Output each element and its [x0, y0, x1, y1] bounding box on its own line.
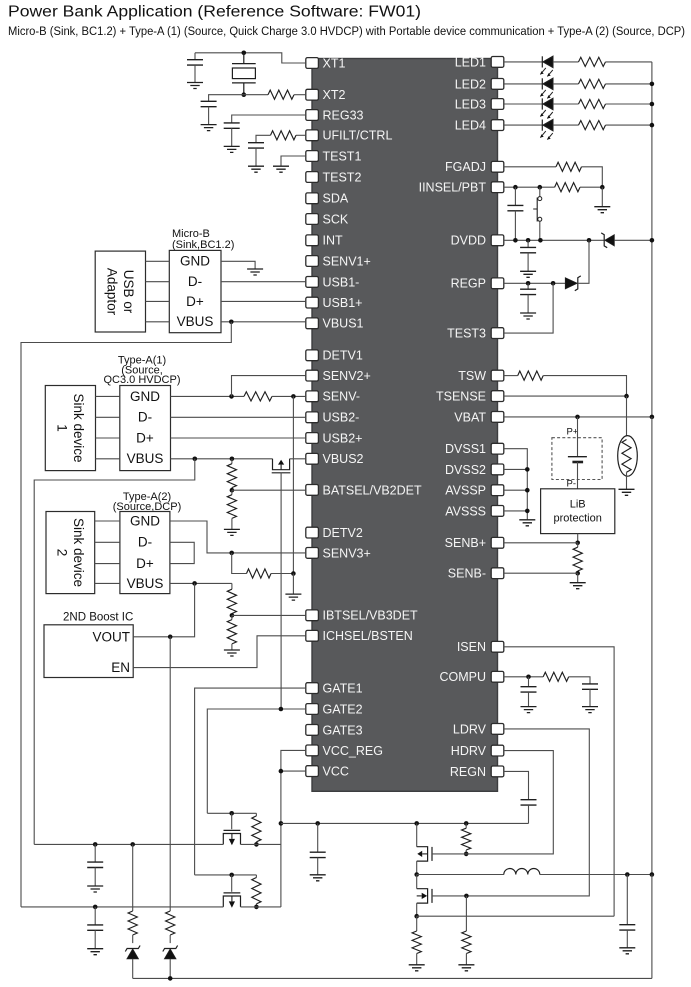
- pin USB1+: [306, 297, 319, 308]
- node Q3 gate: [229, 873, 234, 878]
- wire: [231, 614, 233, 616]
- node TSENSE/thermistor: [624, 394, 629, 399]
- svg-text:VBAT: VBAT: [454, 410, 486, 424]
- resistor (zener series 2): [166, 911, 175, 935]
- wire ISEN return: [417, 915, 614, 917]
- pin HDRV: [491, 745, 504, 756]
- wire SENV- net: [171, 395, 245, 397]
- svg-text:REGP: REGP: [451, 277, 486, 291]
- pin LED1: [491, 57, 504, 68]
- wire DVDD net: [504, 239, 604, 241]
- ground: [187, 83, 203, 89]
- node REGP/TEST3 join: [551, 281, 556, 286]
- wire: [231, 128, 233, 146]
- node REGP cap tap: [526, 281, 531, 286]
- wire: [255, 813, 257, 816]
- pin TSENSE: [491, 391, 504, 402]
- svg-text:LED4: LED4: [455, 119, 486, 133]
- Sink device 2 box: [46, 512, 95, 594]
- wire: [256, 135, 271, 142]
- wire SENB- net: [504, 572, 578, 574]
- wire D- to USB1-: [221, 281, 306, 283]
- USB or Adaptor box: [95, 251, 145, 332]
- wire: [416, 875, 418, 889]
- wire: [255, 842, 257, 845]
- node VBAT/rail: [650, 415, 655, 420]
- svg-text:SENV3+: SENV3+: [323, 546, 371, 560]
- pin SENV-: [306, 391, 319, 402]
- svg-text:UFILT/CTRL: UFILT/CTRL: [323, 129, 393, 143]
- svg-text:P-: P-: [567, 479, 577, 490]
- wire: [96, 437, 120, 439]
- svg-text:SENV-: SENV-: [323, 390, 361, 404]
- resistor (LED3 limit): [579, 99, 606, 108]
- wire: [514, 211, 516, 241]
- svg-text:FGADJ: FGADJ: [445, 160, 486, 174]
- Type-A(2) connector box: [120, 512, 170, 594]
- ground: [458, 965, 474, 971]
- wire: [539, 187, 541, 196]
- wire to IBTSEL/VB3DET: [232, 614, 306, 616]
- pin REG33: [306, 110, 319, 121]
- pin GATE1: [306, 683, 319, 694]
- pin SENB-: [491, 568, 504, 579]
- wire VBUS (Type-A2) net: [170, 582, 232, 584]
- svg-text:protection: protection: [554, 513, 602, 525]
- node Q5 gate/pulldown: [464, 894, 469, 899]
- ground: [520, 313, 536, 319]
- wire: [95, 541, 120, 543]
- wire: [416, 903, 418, 916]
- capacitor (REGN): [521, 800, 537, 805]
- svg-text:GND: GND: [130, 389, 160, 404]
- pin REGP: [491, 278, 504, 289]
- resistor (current sense): [412, 931, 421, 954]
- node GATE2 / Q1 gate: [279, 707, 284, 712]
- svg-text:TEST3: TEST3: [447, 327, 486, 341]
- node Q4 gate/resistor: [464, 852, 469, 857]
- wire: [416, 861, 418, 874]
- transistor Q2 (load switch): [223, 830, 240, 844]
- node VCC cap tap: [315, 821, 320, 826]
- svg-text:EN: EN: [111, 660, 130, 675]
- wire: [96, 458, 120, 460]
- wire AVSSS net: [504, 510, 528, 512]
- wire micro-B GND: [221, 261, 255, 269]
- wire REGP net: [504, 282, 566, 284]
- pin DETV1: [306, 350, 319, 361]
- wire: [209, 95, 244, 102]
- svg-text:TSENSE: TSENSE: [436, 390, 486, 404]
- wire: [231, 813, 233, 829]
- node DVDD/IINSEL cap: [513, 238, 518, 243]
- node sense resistor top: [414, 914, 419, 919]
- pin FGADJ: [491, 161, 504, 172]
- Micro-B connector box: [169, 250, 221, 332]
- node VBAT/battery: [575, 415, 580, 420]
- wire: [231, 490, 233, 495]
- node DVDD cap tap: [526, 238, 531, 243]
- wire: [465, 850, 467, 854]
- node bottom rail join: [168, 976, 173, 981]
- pin ICHSEL/BSTEN: [306, 630, 319, 641]
- svg-text:VCC: VCC: [323, 765, 349, 779]
- node SENB+: [575, 541, 580, 546]
- svg-text:VBUS2: VBUS2: [323, 452, 364, 466]
- svg-text:USB1-: USB1-: [323, 275, 360, 289]
- svg-text:SCK: SCK: [323, 212, 349, 226]
- resistor (LED4 limit): [579, 121, 606, 130]
- pin GATE3: [306, 725, 319, 736]
- svg-text:GATE1: GATE1: [323, 682, 363, 696]
- wire: [580, 186, 602, 188]
- wire: [94, 844, 96, 862]
- wire: [95, 582, 120, 584]
- pin SDA: [306, 193, 319, 204]
- ground: [594, 207, 610, 213]
- node IINSEL cap tap: [513, 185, 518, 190]
- node DVDD switch join: [538, 238, 543, 243]
- wire zener to DVDD: [578, 240, 589, 283]
- ground: [248, 166, 264, 172]
- svg-text:D+: D+: [136, 430, 154, 445]
- svg-text:Power Bank Application (Refere: Power Bank Application (Reference Softwa…: [8, 4, 421, 21]
- pin SENB+: [491, 537, 504, 548]
- wire: [553, 124, 579, 126]
- battery BT1: [568, 456, 587, 458]
- svg-text:INT: INT: [323, 234, 344, 248]
- wire: [272, 395, 306, 397]
- wire Q3 source line: [241, 906, 281, 908]
- wire: [614, 239, 652, 241]
- wire: [255, 148, 257, 166]
- svg-text:SENV2+: SENV2+: [323, 369, 371, 383]
- wire: [514, 187, 516, 205]
- pin VBUS1: [306, 318, 319, 329]
- svg-text:DVDD: DVDD: [451, 234, 486, 248]
- wire: [231, 459, 233, 464]
- wire: [543, 376, 626, 397]
- wire XT1 net: [195, 53, 306, 63]
- node XT2 junction: [242, 92, 247, 97]
- wire ISEN net: [504, 647, 614, 916]
- svg-text:LiB: LiB: [570, 499, 586, 511]
- capacitor (DVDD): [520, 247, 536, 252]
- resistor R_a (VBUS divider upper): [227, 464, 236, 488]
- wire: [601, 187, 603, 207]
- pin IBTSEL/VB3DET: [306, 610, 319, 621]
- pin LED3: [491, 99, 504, 110]
- capacitor (IINSEL filter): [507, 205, 523, 210]
- wire: [255, 904, 257, 907]
- wire VOUT to VBUS: [133, 583, 194, 636]
- svg-text:(Sink,BC1.2): (Sink,BC1.2): [172, 239, 234, 251]
- wire: [416, 916, 418, 931]
- capacitor C4 (UFILT): [248, 143, 264, 148]
- pin VCC: [306, 766, 319, 777]
- svg-text:USB or: USB or: [121, 270, 136, 314]
- pin DETV2: [306, 527, 319, 538]
- node XT1 junction: [242, 51, 247, 56]
- pin LED2: [491, 79, 504, 90]
- pin DVSS1: [491, 443, 504, 454]
- node drain cap tap: [93, 842, 98, 847]
- svg-text:USB2+: USB2+: [323, 431, 363, 445]
- battery pack dashed box: [552, 438, 602, 480]
- ground: [310, 875, 326, 881]
- wire TSENSE net: [504, 395, 627, 397]
- ground: [247, 269, 263, 275]
- inductor L1: [504, 869, 540, 875]
- wire: [465, 954, 467, 965]
- pin ISEN: [491, 641, 504, 652]
- wire: [255, 875, 257, 878]
- ground: [273, 166, 289, 172]
- svg-text:SENV1+: SENV1+: [323, 254, 371, 268]
- wire: [569, 677, 590, 684]
- wire: [606, 61, 652, 63]
- wire LED1 cathode: [504, 61, 543, 63]
- ground: [619, 948, 635, 954]
- ground: [87, 949, 103, 955]
- wire: [169, 935, 171, 943]
- wire D- to USB2-: [171, 416, 306, 418]
- svg-text:D-: D-: [138, 410, 152, 425]
- wire REG33 net: [232, 115, 306, 123]
- wire XT2 net: [244, 94, 268, 96]
- wire LED4 cathode: [504, 124, 543, 126]
- wire AVSSP net: [504, 489, 528, 491]
- resistor (inside thermistor): [622, 440, 631, 473]
- wire Q2 source line: [241, 843, 281, 845]
- svg-text:SDA: SDA: [323, 192, 349, 206]
- LiB protection box: [541, 489, 615, 534]
- wire: [626, 472, 628, 489]
- node switch node left: [414, 872, 419, 877]
- node SENV3+ tap: [229, 551, 234, 556]
- pin DVDD: [491, 235, 504, 246]
- resistor (LED1 limit): [579, 57, 606, 66]
- svg-text:LED1: LED1: [455, 55, 486, 69]
- wire: [96, 395, 120, 397]
- wire: [231, 518, 233, 529]
- wire: [606, 83, 652, 85]
- wire: [553, 61, 579, 63]
- wire switch node: [417, 874, 504, 876]
- wire: [95, 563, 120, 565]
- wire VBAT net: [504, 416, 652, 418]
- pin COMPU: [491, 671, 504, 682]
- wire: [231, 615, 233, 619]
- wire LED2 cathode: [504, 83, 543, 85]
- Sink device 1 box: [45, 386, 95, 471]
- transistor Q4 (high-side PMOS): [417, 847, 432, 861]
- svg-text:DETV1: DETV1: [323, 349, 363, 363]
- wire: [146, 260, 170, 262]
- svg-text:2ND Boost IC: 2ND Boost IC: [63, 612, 133, 624]
- resistor (UFILT series): [271, 131, 297, 140]
- wire: [146, 300, 170, 302]
- capacitor C1 (XT1 load): [187, 60, 203, 65]
- wire: [589, 689, 591, 706]
- wire: [317, 823, 319, 852]
- resistor (SENV- series): [244, 392, 272, 401]
- thermistor RT1: [618, 436, 638, 477]
- node SENB-: [575, 571, 580, 576]
- node VCC input cap tap: [93, 905, 98, 910]
- pin TEST1: [306, 151, 319, 162]
- wire: [577, 543, 579, 547]
- svg-text:IBTSEL/VB3DET: IBTSEL/VB3DET: [323, 609, 419, 623]
- capacitor (COMPU 1): [521, 687, 537, 692]
- node VBUS/VOUT join: [192, 581, 197, 586]
- pin UFILT/CTRL: [306, 130, 319, 141]
- pin VBAT: [491, 412, 504, 423]
- svg-text:BATSEL/VB2DET: BATSEL/VB2DET: [323, 483, 422, 497]
- capacitor (output): [619, 925, 635, 930]
- node LED3 rail: [650, 102, 655, 107]
- pin IINSEL/PBT: [491, 182, 504, 193]
- crystal X1: [232, 53, 256, 95]
- wire: [194, 65, 196, 82]
- pin TEST2: [306, 172, 319, 183]
- ground: [285, 594, 301, 600]
- wire: [231, 875, 233, 892]
- wire: [528, 677, 530, 687]
- wire: [465, 896, 467, 931]
- ground: [520, 271, 536, 277]
- svg-text:SENB-: SENB-: [448, 567, 486, 581]
- svg-text:GATE3: GATE3: [323, 723, 363, 737]
- wire: [626, 930, 628, 948]
- node PMOS drain: [414, 821, 419, 826]
- resistor (VB3 divider upper): [227, 589, 236, 613]
- capacitor (VCC input): [87, 925, 103, 930]
- wire: [95, 520, 120, 522]
- wire: [208, 107, 210, 125]
- node zener branch 1: [130, 842, 135, 847]
- wire right rail to bottom: [651, 875, 653, 979]
- wire: [294, 94, 306, 96]
- transistor Q5 (low-side NMOS): [417, 889, 432, 903]
- wire D-/D+ short (DCP): [170, 542, 194, 563]
- wire: [231, 488, 233, 491]
- ground: [224, 650, 240, 656]
- node DVDD zener join: [587, 238, 592, 243]
- node VBUS branch: [193, 457, 198, 462]
- svg-text:GND: GND: [130, 513, 160, 528]
- svg-text:DETV2: DETV2: [323, 526, 363, 540]
- node COMPU cap tap: [526, 675, 531, 680]
- wire LED anode rail: [651, 62, 653, 417]
- resistor (TSW): [518, 371, 544, 380]
- wire D+ to USB2+: [171, 437, 306, 439]
- pin VCC_REG: [306, 745, 319, 756]
- gate plate of Q1: [272, 472, 291, 474]
- node SENV2+ tap: [229, 394, 234, 399]
- Type-A(1) connector box: [120, 386, 171, 471]
- wire: [465, 823, 467, 828]
- wire: [94, 868, 96, 887]
- ground: [519, 520, 535, 526]
- capacitor (VBUS input): [87, 862, 103, 867]
- node IBTSEL/VB3DET: [230, 613, 235, 618]
- wire DVSS2 net: [504, 468, 528, 470]
- pin AVSSP: [491, 485, 504, 496]
- svg-text:TSW: TSW: [458, 369, 486, 383]
- pin TSW: [491, 370, 504, 381]
- wire COMPU net: [504, 676, 543, 678]
- wire REGN net: [504, 771, 529, 799]
- svg-text:VCC_REG: VCC_REG: [323, 744, 383, 758]
- node Q3 source/resistor: [254, 905, 259, 910]
- 2ND Boost IC box: [44, 625, 133, 678]
- pin GATE2: [306, 704, 319, 715]
- wire VCC rail: [281, 822, 529, 824]
- svg-text:TEST2: TEST2: [323, 170, 362, 184]
- wire GND to SENV3+: [170, 521, 306, 553]
- pin BATSEL/VB2DET: [306, 485, 319, 496]
- wire TEST3 to REGP: [504, 283, 553, 333]
- wire: [132, 959, 134, 979]
- svg-text:Sink device: Sink device: [71, 518, 86, 587]
- wire to BATSEL/VB2DET: [232, 489, 306, 491]
- wire: [231, 583, 233, 589]
- node VCC rail corner: [279, 821, 284, 826]
- wire UFILT/CTRL net: [296, 134, 306, 136]
- LED D1 (LED1): [540, 56, 553, 76]
- ground: [409, 965, 425, 971]
- wire SENB+ net: [504, 542, 578, 544]
- pin SENV1+: [306, 256, 319, 267]
- node rail/DVDD: [650, 238, 655, 243]
- capacitor (COMPU 2): [582, 684, 598, 689]
- wire Q1 gate to GATE2: [280, 473, 282, 709]
- ground: [201, 125, 217, 131]
- node output cap tap: [625, 872, 630, 877]
- wire VBUS2 switch channel: [273, 459, 290, 470]
- wire: [292, 574, 294, 595]
- wire LDRV net: [432, 729, 589, 896]
- LED D4 (LED4): [540, 120, 553, 140]
- svg-text:REG33: REG33: [323, 108, 364, 122]
- ground: [582, 707, 598, 713]
- wire SENV- pulldown rail: [292, 396, 294, 573]
- svg-text:DVSS1: DVSS1: [445, 442, 486, 456]
- capacitor (VCC bypass): [310, 852, 326, 857]
- wire: [146, 281, 170, 283]
- pin VBUS2: [306, 453, 319, 464]
- pin AVSSS: [491, 506, 504, 517]
- pin LDRV: [491, 724, 504, 735]
- wire: [194, 53, 196, 60]
- svg-text:QC3.0 HVDCP): QC3.0 HVDCP): [103, 374, 180, 386]
- arrow of Q1: [280, 465, 282, 470]
- wire VBUS to power FET rail: [34, 459, 195, 845]
- wire VBUS to VBUS1: [221, 321, 306, 323]
- pin INT: [306, 235, 319, 246]
- wire: [232, 553, 247, 574]
- wire: [317, 858, 319, 875]
- ground: [521, 707, 537, 713]
- wire LED3 cathode: [504, 103, 543, 105]
- wire: [527, 295, 529, 313]
- wire: [290, 458, 306, 460]
- wire DVSS1 net: [504, 449, 528, 520]
- wire VCC_REG/VCC vertical: [281, 750, 306, 907]
- pin LED4: [491, 120, 504, 131]
- ground: [224, 529, 240, 535]
